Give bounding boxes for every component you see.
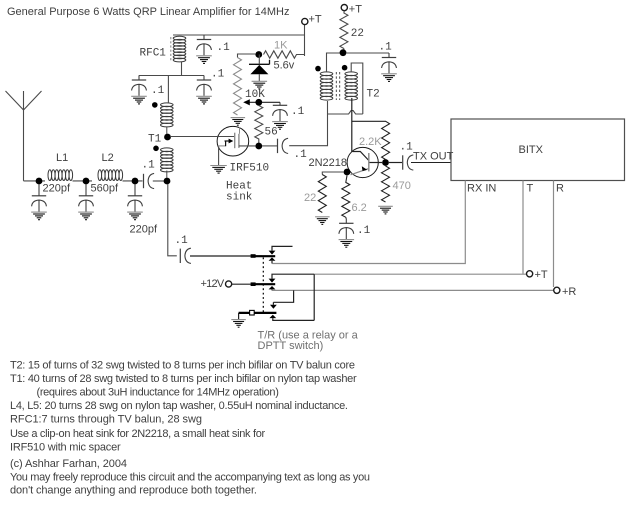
svg-text:General Purpose 6 Watts QRP Li: General Purpose 6 Watts QRP Linear Ampli… [7,6,289,18]
label 2.2K [359,136,382,148]
resistor 10K [234,58,242,116]
svg-text:2N2218: 2N2218 [309,157,348,169]
switch pole 2 (+12V) [252,283,275,285]
label .1 C8 [291,106,305,118]
label +T top [349,4,362,16]
capacitor .1 C7 [197,35,212,55]
svg-text:IRF510: IRF510 [230,163,270,175]
label 220pf C1 [43,183,71,195]
label T pin [527,183,534,195]
capacitor 220pf C3 [128,184,143,212]
junction square +12V line [251,282,256,286]
svg-text:RFC1:7 turns through TV balun,: RFC1:7 turns through TV balun, 28 swg [10,414,202,426]
wire R2-T3 jog [273,290,293,304]
label .1 C6 [211,69,225,81]
resistor 2.2K [352,121,390,159]
capacitor .1 C9 (series) [278,138,289,153]
switch contact T3 down [270,305,277,309]
wire +R line [272,289,553,291]
RFC1 core dashes [170,37,172,61]
label R pin [556,183,564,195]
svg-text:.1: .1 [142,160,156,172]
wire C9 to T2 left bottom [289,101,327,146]
label T1 [148,134,162,146]
label 470 [393,180,411,192]
wire T2 right bottom to collector [351,98,353,152]
svg-text:.1: .1 [175,235,189,247]
label +T right [535,269,548,281]
label 56 [265,127,278,139]
wire IRF510 source to ground [218,147,220,166]
capacitor .1 C8 [273,102,288,121]
ground IRF510 [210,166,227,174]
transistor Q2 2N2218 [347,147,382,177]
resistor 6.2 [342,176,350,219]
label .1 C12 [400,142,414,154]
wire supply node to C10 [347,52,390,54]
resistor 470 [382,166,390,202]
transformer T1 upper winding [161,103,174,127]
wire L2 to C3 [123,180,143,182]
terminal +12V [226,281,232,287]
inductor L2 [98,170,123,181]
svg-text:TX OUT: TX OUT [413,151,454,163]
wire T1 top feed [167,76,169,104]
svg-text:470: 470 [393,180,411,192]
label BITX [519,144,544,156]
svg-text:+T: +T [535,269,548,281]
wire RX IN pin [272,181,465,264]
resistor 22 feed [340,11,348,50]
svg-text:.1: .1 [357,225,371,237]
svg-text:+12V: +12V [201,278,225,290]
phasing dot T2 right [342,65,348,71]
label .1 C13 [175,235,189,247]
wire T1 upper stem [166,127,168,134]
wiper arrow 10K [243,99,280,105]
svg-text:2.2K: 2.2K [359,136,382,148]
svg-text:L4, L5: 20 turns 28 swg on nyl: L4, L5: 20 turns 28 swg on nylon tap was… [10,400,348,412]
switch pole 3 (ground) [239,312,277,314]
switch pole 1 (antenna) [252,255,275,257]
title text [7,6,289,18]
wire R pin [553,181,555,288]
ground C1 [31,212,47,220]
ground C6 [196,96,212,104]
label 2N2218 [309,157,348,169]
terminal +T top [341,5,347,11]
resistor 1K [264,51,305,58]
capacitor .1 C12 (series) [403,155,414,170]
svg-text:don't change anything and repr: don't change anything and reproduce both… [10,485,257,497]
label .1 C11 [357,225,371,237]
junction square antenna line [251,254,256,258]
svg-text:10K: 10K [245,89,265,101]
svg-text:You may freely reproduce this: You may freely reproduce this circuit an… [10,472,370,484]
wire T2 left top [327,53,344,72]
svg-text:1K: 1K [274,40,288,52]
capacitor 220pf C1 [32,184,47,212]
transformer T1 lower winding [161,148,174,172]
ground C8 [272,122,288,130]
node zener junction [255,51,262,58]
notes text block [10,360,370,497]
label .1 C4 [142,160,156,172]
svg-text:BITX: BITX [519,144,544,156]
switch linkage dotted line [262,258,264,314]
wire C13 to pole1 [190,255,262,257]
capacitor .1 C10 [382,53,397,73]
inductor RFC1 [173,36,186,62]
ground 22 emitter [315,217,330,225]
label TX OUT [413,151,454,163]
resistor 56 [255,106,263,144]
svg-text:220pf: 220pf [43,183,71,195]
ground C2 [78,212,94,220]
svg-text:6.2: 6.2 [352,202,367,214]
svg-text:DPTT switch): DPTT switch) [258,340,324,352]
svg-text:IRF510 with mic spacer: IRF510 with mic spacer [10,442,121,454]
label 22 feed [351,28,364,40]
ground C7 [196,56,212,64]
wire L1 to C2 [73,180,93,182]
svg-text:560pf: 560pf [91,183,119,195]
contact square ground line [250,310,255,315]
ground zener [252,81,268,89]
ground T/R switch [231,320,246,328]
terminal +T right [527,271,533,277]
wire bias node to C9 [262,145,277,147]
ground 470 [378,206,393,214]
block BITX [451,119,625,181]
svg-text:56: 56 [265,127,278,139]
svg-text:T2: 15 of turns of 32 swg twis: T2: 15 of turns of 32 swg twisted to 8 t… [10,360,355,372]
svg-text:.1: .1 [400,142,414,154]
switch contact T1 up [269,246,293,254]
label 6.2 [352,202,367,214]
svg-text:.1: .1 [217,42,231,54]
phasing dot T2 left [315,66,321,72]
node antenna junction [36,178,43,185]
antenna [6,91,42,181]
svg-text:L2: L2 [102,152,114,164]
wire +T line [314,273,526,275]
wire +T rail [173,25,305,56]
node C3 junction [132,178,139,185]
capacitor .1 C4 (series) [144,173,155,188]
terminal +T left [302,18,308,24]
wire T2 cross link with hop [328,111,363,114]
label IRF510 [230,163,270,175]
label 5.6v [274,60,295,72]
label T/R note [258,330,359,353]
wire antenna to LPF [24,180,46,182]
svg-text:RFC1: RFC1 [140,48,167,60]
ground C10 [381,74,397,82]
svg-text:Use a clip-on heat sink for 2N: Use a clip-on heat sink for 2N2218, a sm… [10,428,266,440]
svg-text:sink: sink [226,192,253,204]
wire ground pole stem [238,313,240,319]
svg-text:L1: L1 [56,152,68,164]
label 1K [274,40,288,52]
capacitor .1 C6 [197,76,212,96]
wire T1 bottom stem [166,171,168,179]
capacitor .1 C11 [339,219,354,239]
svg-text:220pf: 220pf [130,224,158,236]
label RFC1 [140,48,167,60]
wire zener node left [238,54,256,58]
label +12V [201,278,225,290]
phasing dot T1 upper [152,102,158,108]
label 220pf C3 [130,224,158,236]
svg-text:T1: 40 turns of 28 swg twisted: T1: 40 turns of 28 swg twisted to 8 turn… [10,373,357,385]
label 10K [245,89,265,101]
svg-text:.1: .1 [291,106,305,118]
switch contact R2 down [269,286,276,290]
wire emitter to 22 [322,172,343,175]
wire switch vertical link [313,274,315,320]
svg-text:RX IN: RX IN [467,183,496,195]
node Q2 base junction [382,159,389,166]
switch contact T2c up [269,274,315,282]
zener diode 5.6v [249,55,270,82]
wire RFC1 stem [181,62,183,76]
transistor Q1 IRF510 [171,126,256,156]
capacitor 560pf C2 [79,184,94,212]
switch contact R3 up [269,315,314,321]
svg-text:(requires about 3uH inductance: (requires about 3uH inductance for 14MHz… [37,387,279,399]
svg-text:T1: T1 [148,134,162,146]
ground 10K [231,118,246,126]
switch contact R1 down [269,257,276,263]
node C2 junction [83,178,90,185]
svg-text:(c) Ashhar Farhan, 2004: (c) Ashhar Farhan, 2004 [10,458,127,470]
transformer T2 right winding [345,72,358,100]
label RX IN [467,183,496,195]
label .1 C9 [294,149,308,161]
wire +12V to pole2 [232,283,262,285]
ground C11 [339,240,355,248]
svg-text:22: 22 [351,28,364,40]
svg-text:22: 22 [304,192,316,204]
node T1 bottom junction [164,178,171,185]
transformer T2 left winding [320,72,333,100]
svg-text:+R: +R [562,286,576,298]
svg-text:.1: .1 [211,69,225,81]
label 22 emitter [304,192,316,204]
label .1 C5 [151,85,165,97]
capacitor .1 C13 (series) [180,248,191,263]
ground C3 [127,212,143,220]
svg-text:5.6v: 5.6v [274,60,295,72]
label Heat sink [226,181,253,204]
node T2 supply junction [340,49,347,56]
svg-text:R: R [556,183,564,195]
svg-text:.1: .1 [294,149,308,161]
label +R [562,286,576,298]
node T1 center tap [164,134,171,141]
label T2 [367,89,380,101]
label .1 C10 [379,42,393,54]
wire T1 junction down to switch [168,184,177,256]
svg-text:+T: +T [309,14,322,26]
wire T2 right top bracket [351,63,363,114]
terminal +R [554,287,560,293]
ground C5 [131,96,147,104]
wire RFC1 bus [139,75,204,77]
node Q2 emitter junction [344,169,351,176]
T2 core dashes [336,72,339,100]
label .1 C7 [217,42,231,54]
label L2 [102,152,114,164]
wire base to C12 [389,162,402,164]
wire C12 to BITX [411,162,451,164]
svg-text:+T: +T [349,4,362,16]
node gate bias junction [255,143,262,150]
resistor 22 emitter [318,175,326,213]
wire C4 to T1 [153,180,167,182]
wire T pin [522,181,524,274]
node wiper junction [255,99,262,106]
label 560pf [91,183,119,195]
svg-text:T: T [527,183,534,195]
phasing dot T1 lower [153,146,159,152]
label +T left [309,14,322,26]
svg-text:T2: T2 [367,89,380,101]
svg-text:.1: .1 [379,42,393,54]
label L1 [56,152,68,164]
svg-text:.1: .1 [151,85,165,97]
capacitor .1 C5 [132,76,147,96]
inductor L1 [48,170,73,181]
